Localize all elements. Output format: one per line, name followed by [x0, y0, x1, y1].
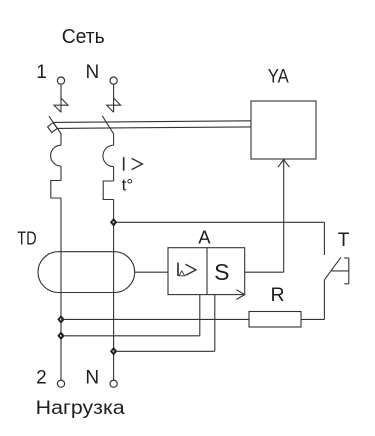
test button actuator — [332, 270, 349, 272]
wire pole N below blade — [113, 134, 115, 145]
mechanism box — [48, 123, 58, 133]
wire test button to resistor — [323, 280, 325, 320]
terminal N circle top — [110, 77, 117, 84]
arrowhead into YA — [278, 160, 290, 168]
svg-text:Нагрузка: Нагрузка — [36, 398, 125, 419]
mechanical linkage bar — [53, 121, 251, 123]
svg-text:YA: YA — [268, 66, 289, 87]
breaker contact pole 1 — [54, 98, 68, 112]
svg-text:1: 1 — [36, 62, 47, 83]
svg-text:N: N — [85, 368, 99, 389]
wire amplifier output to YA — [245, 271, 284, 273]
wire pole 1 from terminal 1 — [60, 84, 62, 112]
terminal 2 circle — [57, 380, 64, 387]
svg-text:t°: t° — [122, 175, 134, 194]
resistor R — [249, 312, 301, 328]
svg-text:N: N — [86, 62, 100, 83]
breaker contact pole N — [107, 98, 121, 112]
wire N tap to test button — [114, 221, 325, 223]
amplifier supply pin right — [214, 295, 216, 352]
wire pole N from terminal N — [113, 84, 115, 112]
node pole N supply tap — [110, 347, 117, 356]
wire pole N — [113, 167, 115, 181]
terminal 1 circle — [57, 77, 64, 84]
svg-text:S: S — [214, 259, 229, 285]
node pole 1 supply tap — [57, 332, 64, 341]
wire pole N supply to amplifier — [114, 350, 215, 352]
wire pole 1 — [60, 166, 62, 181]
symbol I-delta in amplifier — [177, 263, 179, 276]
wire pole N down to load — [113, 200, 115, 381]
amplifier output arrow on bottom edge — [236, 290, 244, 300]
pole N contact blade — [102, 116, 114, 134]
amplifier supply pin left — [199, 295, 201, 336]
thermal release pole N — [103, 181, 113, 200]
electromagnetic release coil pole N — [103, 145, 114, 166]
svg-text:T: T — [338, 230, 350, 251]
wire TD to amplifier — [135, 271, 168, 273]
pole 1 contact blade — [49, 116, 61, 134]
node N tap junction — [110, 218, 117, 227]
label I> electromagnetic release — [123, 157, 125, 171]
thermal release pole 1 — [51, 181, 61, 199]
svg-text:Сеть: Сеть — [62, 26, 105, 48]
wire pole 1 below blade — [60, 134, 62, 145]
svg-text:A: A — [198, 227, 211, 248]
electromagnet YA box — [251, 101, 316, 159]
test button T contact blade — [324, 257, 341, 280]
svg-text:R: R — [270, 284, 284, 306]
current transformer TD — [38, 252, 135, 293]
terminal N circle bottom — [110, 380, 117, 387]
svg-text:2: 2 — [36, 368, 47, 389]
electromagnetic release coil pole 1 — [51, 145, 61, 166]
svg-text:TD: TD — [17, 227, 36, 248]
node pole 1 test tap — [57, 315, 64, 324]
amplifier block A — [168, 248, 245, 295]
wire pole 1 down to load — [60, 198, 62, 380]
wire pole 1 supply to amplifier — [61, 335, 200, 337]
wire pole 1 tap to resistor — [61, 318, 249, 320]
